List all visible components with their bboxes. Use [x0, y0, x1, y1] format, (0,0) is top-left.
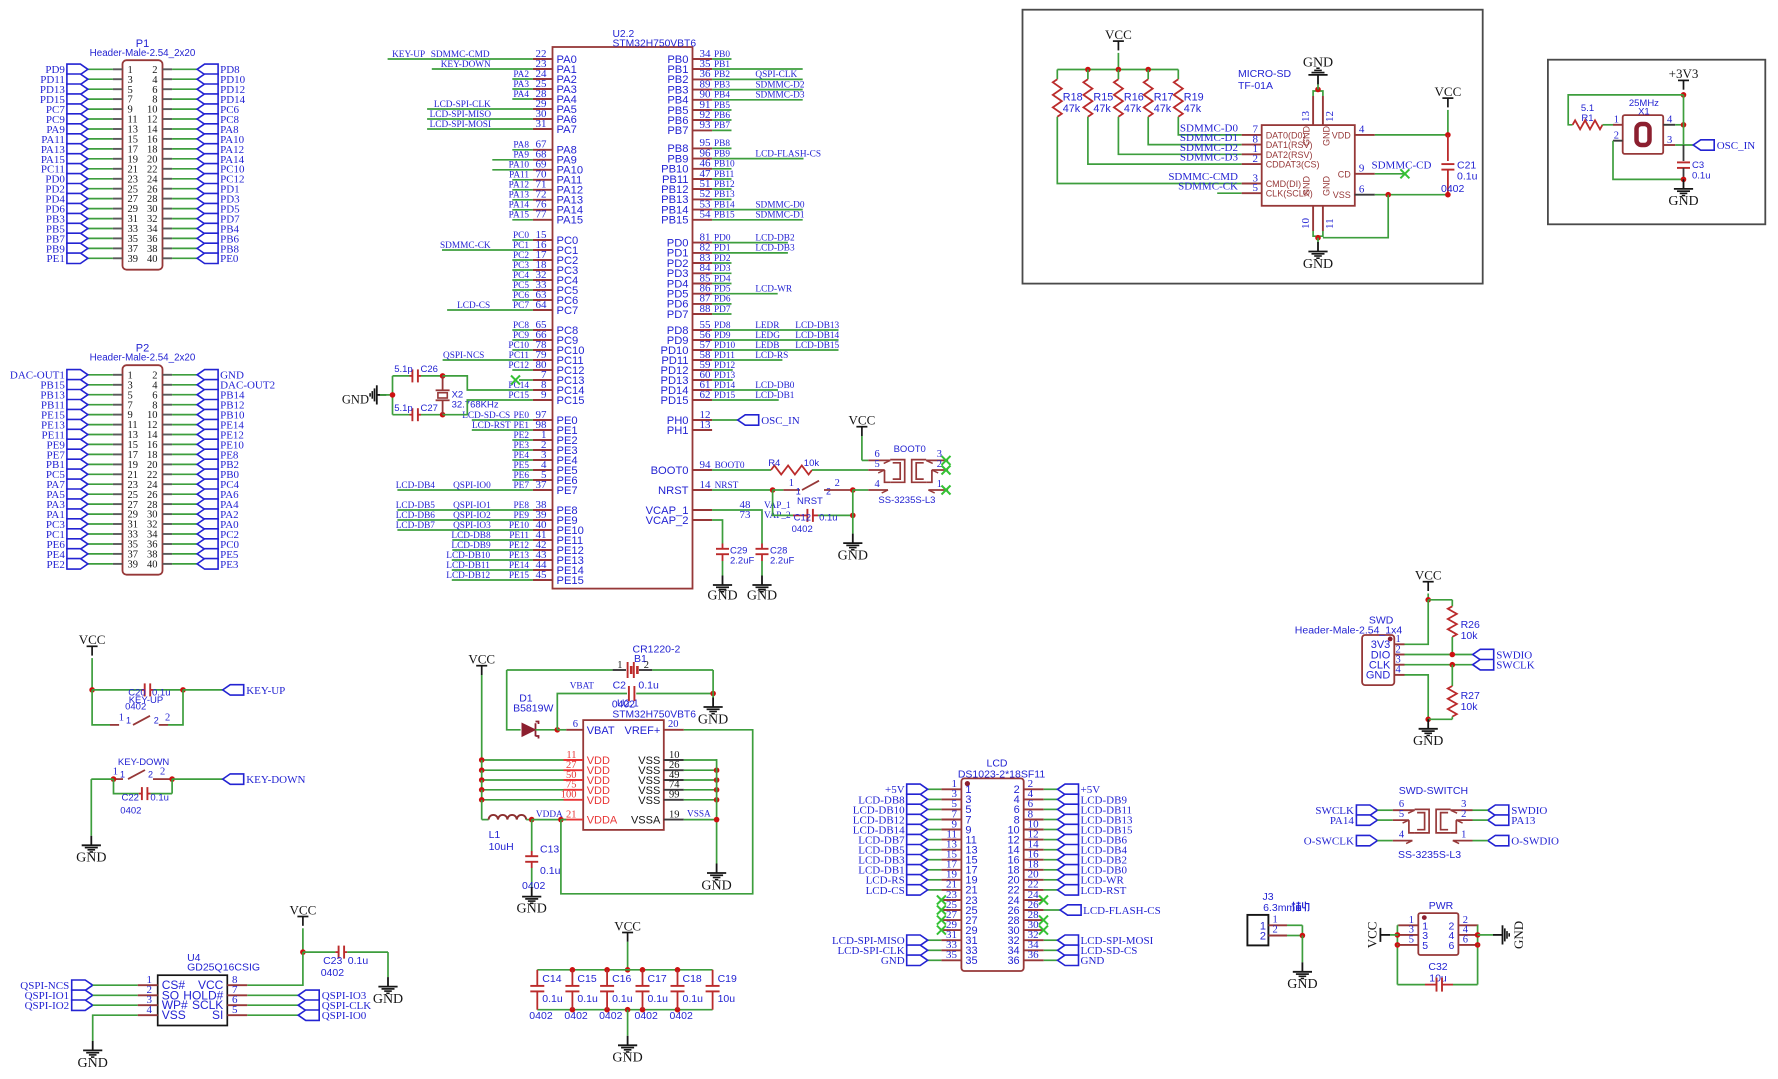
- U2.2 pin 86 PD5: [667, 283, 793, 301]
- U2.2 pin 14 NRST: [658, 479, 739, 497]
- LCD pin 3 LCD-DB8: [858, 788, 971, 806]
- U2.2 pin 93 PB7: [667, 119, 731, 137]
- svg-text:PE3: PE3: [220, 559, 239, 571]
- X1 pin 1: [1613, 115, 1623, 126]
- wire VCC to switch pin6: [862, 459, 868, 461]
- svg-text:PE7: PE7: [557, 485, 578, 497]
- svg-text:13: 13: [700, 419, 712, 431]
- U2.2 pin 39 PE9: [396, 509, 578, 527]
- SWD pin 4 GND: [1366, 665, 1405, 682]
- resistor R16 47k: [1114, 70, 1144, 117]
- P1 pin row 27/28 PD4/PD3: [45, 193, 240, 205]
- svg-text:VCC: VCC: [849, 413, 876, 428]
- switch BOOT0 SS-3235S-L3: [868, 444, 950, 506]
- LCD pin 28 NC: [1007, 909, 1048, 927]
- svg-text:PD9: PD9: [714, 331, 731, 341]
- svg-text:Header-Male-2.54_1x4: Header-Male-2.54_1x4: [1295, 625, 1403, 637]
- U2.1 VSS pin 10: [638, 750, 716, 767]
- svg-text:LCD-FLASH-CS: LCD-FLASH-CS: [755, 149, 821, 159]
- svg-text:1: 1: [937, 479, 942, 490]
- capacitor C22 0.1u key-down: [114, 779, 173, 817]
- wire VCAP_1 to C28: [712, 510, 762, 544]
- svg-text:6: 6: [1463, 935, 1468, 946]
- U2.2 pin 28 PA4: [512, 88, 577, 106]
- U2.1 VSS pin 26: [638, 760, 719, 777]
- svg-text:LCD-DB5: LCD-DB5: [396, 501, 436, 511]
- P2 pin row 25/26 PA5/PA6: [46, 489, 239, 501]
- P1 pin row 9/10 PC7/PC6: [46, 104, 240, 116]
- U2.1 VSS pin 74: [638, 780, 719, 797]
- svg-text:6.3mm: 6.3mm: [1263, 902, 1295, 914]
- svg-text:PC7: PC7: [557, 305, 579, 317]
- TF pin 8 DAT1(RSV): [1180, 132, 1313, 150]
- svg-text:10k: 10k: [1461, 630, 1479, 642]
- LCD pin 24 NC: [1007, 889, 1048, 907]
- svg-text:0.1u: 0.1u: [540, 865, 561, 877]
- svg-text:PC12: PC12: [508, 361, 529, 371]
- svg-text:88: 88: [700, 303, 712, 315]
- wire CLK: [1217, 192, 1242, 194]
- battery B1 CR1220-2: [507, 644, 713, 730]
- P1 pin row 37/38 PB9/PB8: [46, 243, 240, 255]
- svg-text:NRST: NRST: [797, 496, 823, 507]
- ground below C28: [747, 576, 777, 604]
- svg-text:PE4: PE4: [514, 451, 530, 461]
- svg-text:PE15: PE15: [557, 575, 584, 587]
- LCD pin 33 LCD-SPI-CLK: [837, 939, 977, 957]
- U2.2 pin 97 PE0: [462, 409, 577, 427]
- svg-text:LCD-CS: LCD-CS: [866, 885, 905, 897]
- svg-text:PA12: PA12: [509, 181, 530, 191]
- svg-text:C13: C13: [540, 844, 559, 856]
- capacitor C15 0.1u: [564, 970, 598, 1022]
- svg-text:PD15: PD15: [661, 395, 689, 407]
- LCD pin 19 LCD-RS: [866, 869, 978, 887]
- svg-text:LCD-RST: LCD-RST: [472, 421, 511, 431]
- TF pin 1 DAT2(RSV): [1180, 142, 1313, 160]
- svg-text:GND: GND: [76, 851, 106, 866]
- U2.2 pin 17 PC2: [512, 249, 578, 267]
- svg-text:LCD-DB6: LCD-DB6: [396, 511, 436, 521]
- U2.2 pin 9 PC15: [508, 389, 584, 407]
- PWR pins 5/6: [1398, 935, 1478, 952]
- svg-text:0.1u: 0.1u: [638, 680, 659, 692]
- P1 pin row 13/14 PA9/PA8: [46, 124, 239, 136]
- svg-text:6: 6: [573, 719, 578, 730]
- svg-text:LCD-DB14: LCD-DB14: [795, 331, 839, 341]
- svg-text:VCC: VCC: [614, 918, 641, 933]
- net flag QSPI-IO1: [25, 990, 138, 1002]
- net flag SWCLK sw: [1315, 805, 1392, 817]
- svg-text:KEY-DOWN: KEY-DOWN: [246, 774, 305, 786]
- svg-text:PE7: PE7: [514, 481, 530, 491]
- svg-text:40: 40: [147, 560, 158, 571]
- U2.2 pin 56 PD9: [667, 329, 840, 347]
- U2.2 pin 46 PB10: [661, 158, 735, 176]
- net flag KEY-UP: [183, 685, 285, 697]
- svg-text:10k: 10k: [1461, 701, 1479, 713]
- svg-text:GND: GND: [707, 589, 737, 604]
- svg-text:QSPI-IO3: QSPI-IO3: [453, 521, 491, 531]
- P2 pin row 39/40 PE2/PE3: [47, 559, 239, 571]
- U2.2 pin 41 PE11: [451, 529, 583, 547]
- P2 pin row 3/4 PB15/DAC-OUT2: [40, 380, 275, 392]
- svg-text:PD13: PD13: [714, 371, 736, 381]
- LCD pin 4 LCD-DB9: [1014, 788, 1128, 806]
- LCD pin 12 LCD-DB6: [1007, 828, 1127, 846]
- P1 pin row 21/22 PC11/PC10: [41, 164, 245, 176]
- svg-text:PD15: PD15: [714, 391, 736, 401]
- svg-text:2: 2: [826, 486, 831, 496]
- wire resistor top rail: [1057, 67, 1178, 73]
- U2.2 pin 12 PH0: [667, 409, 712, 427]
- svg-text:GND: GND: [1302, 176, 1312, 197]
- svg-text:LCD-CS: LCD-CS: [457, 301, 490, 311]
- svg-text:PA11: PA11: [509, 171, 529, 181]
- svg-text:LCD-DB8: LCD-DB8: [451, 531, 491, 541]
- P1 pin row 23/24 PD0/PC12: [45, 174, 244, 186]
- svg-text:PE2: PE2: [47, 559, 65, 571]
- U2.2 pin 32 PC4: [512, 269, 578, 287]
- svg-text:100: 100: [561, 790, 577, 801]
- P1 pin row 11/12 PC9/PC8: [46, 114, 240, 126]
- svg-text:PD7: PD7: [667, 309, 689, 321]
- U2.2 pin 1 PE2: [512, 429, 577, 447]
- LCD pin 18 LCD-DB0: [1007, 859, 1127, 877]
- oscillator section frame: [1548, 60, 1765, 225]
- svg-text:VBAT: VBAT: [587, 725, 615, 737]
- capacitor C32 10u: [1397, 961, 1477, 992]
- svg-text:PC9: PC9: [513, 331, 529, 341]
- svg-text:PA2: PA2: [513, 70, 529, 80]
- svg-text:O-SWCLK: O-SWCLK: [1304, 836, 1354, 848]
- svg-text:PB4: PB4: [714, 91, 730, 101]
- svg-text:5.1p: 5.1p: [394, 403, 413, 414]
- svg-text:0402: 0402: [599, 1010, 623, 1022]
- svg-text:47k: 47k: [1063, 103, 1081, 115]
- svg-text:C22: C22: [122, 792, 139, 803]
- PWR pins 1/2: [1398, 915, 1478, 932]
- U2.2 pin 95 PB8: [667, 137, 731, 155]
- svg-text:1: 1: [120, 770, 125, 780]
- U2.2 pin 31 PA7: [427, 118, 577, 136]
- svg-text:PB15: PB15: [714, 211, 735, 221]
- wire X2 left vertical: [390, 376, 396, 415]
- svg-text:0402: 0402: [125, 702, 146, 713]
- svg-text:2: 2: [165, 712, 170, 723]
- svg-text:QSPI-IO1: QSPI-IO1: [453, 501, 491, 511]
- power VCC U2.1: [468, 652, 495, 760]
- P1 pin row 31/32 PB3/PD7: [46, 213, 240, 225]
- U2.1 VDDA pin 21: [482, 800, 618, 827]
- wire VCAP_2 to C29: [712, 520, 722, 544]
- svg-text:2: 2: [154, 716, 159, 726]
- svg-text:PE6: PE6: [514, 471, 530, 481]
- svg-text:PB3: PB3: [714, 80, 730, 90]
- P1 pin row 19/20 PA15/PA14: [41, 154, 245, 166]
- svg-text:PE9: PE9: [514, 511, 530, 521]
- LCD pin 30 NC: [1007, 919, 1048, 937]
- ground below C12: [838, 490, 868, 563]
- P1 pin row 33/34 PB5/PB4: [46, 223, 240, 235]
- svg-text:C2: C2: [613, 680, 627, 692]
- svg-text:PE13: PE13: [509, 551, 529, 561]
- U2.2 pin 88 PD7: [667, 303, 732, 321]
- svg-text:0.1u: 0.1u: [542, 993, 563, 1005]
- U2.2 pin 80 PC12: [508, 359, 584, 377]
- svg-text:C26: C26: [421, 364, 438, 375]
- U2.2 pin 7 PC13: [533, 369, 585, 387]
- svg-text:SWCLK: SWCLK: [1496, 660, 1535, 672]
- U2.1 VDD pin 27: [479, 760, 610, 780]
- resistor R17 47k: [1144, 70, 1174, 117]
- TF top GND pins: [1300, 55, 1336, 146]
- U2.2 pin 87 PD6: [667, 293, 732, 311]
- svg-text:19: 19: [669, 809, 680, 820]
- net flag SWCLK: [1473, 660, 1535, 672]
- svg-text:2: 2: [1614, 131, 1619, 142]
- U2.2 pin 18 PC3: [512, 259, 578, 277]
- U2.2 pin 85 PD4: [667, 272, 732, 290]
- svg-text:PE14: PE14: [509, 561, 529, 571]
- SWD pin 3 CLK: [1369, 655, 1405, 672]
- svg-text:QSPI-IO2: QSPI-IO2: [25, 1000, 70, 1012]
- svg-text:PE1: PE1: [47, 253, 65, 265]
- svg-text:C19: C19: [718, 973, 737, 985]
- U2.2 pin 53 PB14: [661, 198, 805, 216]
- svg-text:PE11: PE11: [509, 531, 529, 541]
- svg-text:20: 20: [668, 719, 679, 730]
- P2 pin row 19/20 PB1/PB2: [46, 459, 239, 471]
- svg-text:77: 77: [536, 209, 548, 221]
- svg-text:PD7: PD7: [714, 305, 731, 315]
- net flag QSPI-IO0: [247, 1010, 367, 1022]
- P2 pin row 5/6 PB13/PB14: [40, 390, 245, 402]
- wire R15 to DAT3: [1088, 117, 1242, 164]
- svg-text:GND: GND: [1322, 176, 1332, 197]
- svg-text:PA7: PA7: [557, 124, 577, 136]
- svg-text:LCD-DB10: LCD-DB10: [446, 551, 490, 561]
- U4 pin 4 VSS: [138, 1004, 186, 1022]
- U2.2 pin 63 PC6: [512, 289, 578, 307]
- svg-text:99: 99: [669, 790, 680, 801]
- lcd connector DS1023 body: [958, 758, 1046, 972]
- svg-text:PA15: PA15: [509, 211, 530, 221]
- svg-text:SDMMC-CD: SDMMC-CD: [1372, 159, 1432, 171]
- U2.2 pin 71 PA12: [509, 179, 583, 197]
- LCD pin 13 LCD-DB5: [858, 839, 977, 857]
- capacitor C29 2.2uF: [716, 544, 754, 576]
- svg-text:PC0: PC0: [513, 231, 529, 241]
- svg-text:STM32H750VBT6: STM32H750VBT6: [612, 710, 696, 721]
- svg-text:PE10: PE10: [509, 521, 529, 531]
- SWD pin 1 3V3: [1371, 634, 1405, 651]
- svg-text:64: 64: [536, 299, 548, 311]
- J3 chinese label: [1292, 902, 1309, 912]
- U2.2 pin 54 PB15: [661, 209, 805, 227]
- svg-text:PB9: PB9: [714, 149, 730, 159]
- svg-text:LCD-DB4: LCD-DB4: [396, 481, 436, 491]
- svg-text:62: 62: [700, 389, 711, 401]
- TF pin 9 CD: [1338, 159, 1432, 179]
- svg-text:5.1p: 5.1p: [394, 364, 413, 375]
- U2.2 pin 35 PB1: [667, 58, 802, 76]
- svg-text:10uH: 10uH: [489, 841, 514, 853]
- capacitor C26 5.1p: [393, 364, 443, 382]
- wire vcc rail to R26: [1428, 599, 1452, 601]
- U2.2 pin 76 PA14: [509, 199, 583, 217]
- svg-text:SDMMC-CK: SDMMC-CK: [1178, 181, 1238, 193]
- LCD pin 15 LCD-DB3: [858, 849, 977, 867]
- inductor L1 10uH: [482, 815, 567, 853]
- svg-text:PC4: PC4: [513, 271, 529, 281]
- tf-card TF-01A body: [1238, 68, 1355, 206]
- svg-text:PC15: PC15: [557, 395, 585, 407]
- svg-text:PE8: PE8: [514, 501, 530, 511]
- capacitor C13 0.1u: [522, 820, 561, 892]
- U2.1 VDD pin 50: [479, 770, 610, 790]
- LCD pin 29 NC: [937, 919, 978, 937]
- svg-text:SDMMC-CK: SDMMC-CK: [440, 241, 491, 251]
- power +3V3: [1669, 66, 1699, 98]
- svg-text:4: 4: [874, 479, 880, 490]
- svg-text:KEY-UP: KEY-UP: [246, 685, 285, 697]
- U2.2 pin 58 PD11: [661, 349, 788, 367]
- U2.2 pin 52 PB13: [661, 188, 735, 206]
- X1 vcc drop: [1683, 95, 1685, 145]
- svg-text:VCC: VCC: [1415, 568, 1442, 583]
- svg-text:PC3: PC3: [513, 261, 529, 271]
- U2.2 pin 40 PE10: [396, 519, 584, 537]
- svg-text:PWR: PWR: [1429, 900, 1454, 912]
- resistor R27 10k: [1448, 665, 1480, 720]
- capacitor C14 0.1u: [529, 970, 563, 1022]
- U2.2 pin 77 PA15: [509, 209, 583, 227]
- capacitor C12 0.1u: [773, 490, 856, 535]
- svg-text:MICRO-SD: MICRO-SD: [1238, 68, 1291, 80]
- svg-text:VSS: VSS: [638, 795, 660, 807]
- svg-text:GD25Q16CSIG: GD25Q16CSIG: [187, 962, 260, 974]
- U2.2 pin 16 PC1: [440, 239, 578, 257]
- svg-text:PA14: PA14: [1330, 815, 1355, 827]
- power VCC swd: [1415, 568, 1442, 603]
- U2.2 pin 24 PA2: [512, 68, 577, 86]
- svg-text:DAT2(RSV): DAT2(RSV): [1266, 150, 1313, 160]
- U2.2 pin 57 PD10: [661, 339, 840, 357]
- svg-text:O-SWDIO: O-SWDIO: [1511, 836, 1559, 848]
- svg-text:SWD-SWITCH: SWD-SWITCH: [1399, 785, 1468, 797]
- P2 pin row 31/32 PC3/PA0: [46, 519, 239, 531]
- svg-text:PE0: PE0: [514, 411, 530, 421]
- svg-text:PB8: PB8: [714, 139, 730, 149]
- svg-text:1: 1: [789, 478, 794, 489]
- svg-text:GND: GND: [1081, 955, 1105, 967]
- svg-text:J3: J3: [1262, 891, 1273, 903]
- svg-text:PD0: PD0: [714, 233, 731, 243]
- svg-text:SDMMC-D1: SDMMC-D1: [755, 211, 804, 221]
- svg-text:PB13: PB13: [714, 190, 735, 200]
- svg-text:36: 36: [1028, 949, 1040, 961]
- svg-text:SS-3235S-L3: SS-3235S-L3: [1398, 849, 1461, 861]
- U2.2 pin 90 PB4: [667, 89, 804, 107]
- svg-text:SDMMC-CMD: SDMMC-CMD: [431, 50, 490, 60]
- svg-text:VCC: VCC: [1105, 27, 1132, 42]
- svg-text:PB10: PB10: [714, 160, 735, 170]
- svg-text:40: 40: [147, 254, 158, 265]
- svg-text:PB11: PB11: [714, 170, 735, 180]
- LCD pin 6 LCD-DB11: [1014, 798, 1132, 816]
- U2.2 pin 43 PE13: [446, 549, 584, 567]
- ground cap bank: [612, 1010, 642, 1066]
- svg-text:C32: C32: [1428, 961, 1447, 973]
- U2.2 pin 65 PC8: [512, 319, 578, 337]
- U2.2 pin 70 PA11: [509, 169, 582, 187]
- svg-text:LCD-RS: LCD-RS: [755, 351, 788, 361]
- P2 pin row 33/34 PC1/PC2: [46, 529, 239, 541]
- svg-text:PD8: PD8: [714, 321, 731, 331]
- svg-text:VDD: VDD: [587, 795, 610, 807]
- net flag QSPI-IO2: [25, 1000, 138, 1012]
- U2.2 pin 72 PA13: [509, 189, 583, 207]
- LCD pin 25 NC: [937, 899, 978, 917]
- U2.2 pin 45 PE15: [446, 569, 584, 587]
- svg-text:GND: GND: [838, 548, 868, 563]
- svg-text:PD3: PD3: [714, 264, 731, 274]
- P1 pin row 29/30 PD6/PD5: [45, 203, 240, 215]
- svg-text:1: 1: [796, 486, 801, 496]
- svg-text:93: 93: [700, 119, 712, 131]
- net flag SWDIO sw: [1473, 805, 1548, 817]
- P2 pin row 27/28 PA3/PA4: [46, 499, 239, 511]
- svg-text:C16: C16: [612, 973, 631, 985]
- svg-text:47k: 47k: [1124, 103, 1142, 115]
- svg-text:BOOT0: BOOT0: [651, 465, 689, 477]
- U2.1 VDD pin 100: [479, 790, 610, 807]
- P1 pin row 35/36 PB7/PB6: [46, 233, 240, 245]
- svg-text:31: 31: [536, 118, 547, 130]
- X1 pin 3: [1663, 135, 1693, 146]
- svg-text:VSS: VSS: [162, 1008, 186, 1022]
- TF pin 5 CLK(SCLK): [1178, 181, 1313, 199]
- svg-text:PB2: PB2: [714, 70, 730, 80]
- svg-text:10k: 10k: [804, 458, 820, 469]
- svg-text:SDMMC-D3: SDMMC-D3: [755, 91, 804, 101]
- svg-text:LCD-DB1: LCD-DB1: [755, 391, 795, 401]
- net flag OSC_IN at PH0: [712, 415, 800, 427]
- U2.2 pin 36 PB2: [667, 68, 802, 86]
- svg-text:0.1u: 0.1u: [819, 513, 838, 524]
- svg-text:PC5: PC5: [513, 281, 529, 291]
- diode D1 B5819W: [513, 693, 566, 739]
- svg-text:PE0: PE0: [220, 253, 239, 265]
- svg-text:6: 6: [1359, 184, 1365, 196]
- U2.2 pin 13 PH1: [667, 419, 712, 437]
- SWD pin 2 DIO: [1371, 644, 1405, 661]
- svg-text:KEY-DOWN: KEY-DOWN: [441, 60, 491, 70]
- svg-text:1: 1: [119, 712, 124, 723]
- LCD pin 8 LCD-DB13: [1014, 808, 1133, 826]
- svg-text:X1: X1: [1638, 106, 1650, 117]
- U2.2 pin 73 VCAP_2: [646, 509, 791, 527]
- svg-text:0402: 0402: [670, 1010, 694, 1022]
- svg-text:13: 13: [1300, 111, 1312, 123]
- U2.2 pin 2 PE3: [512, 439, 577, 457]
- svg-text:CD: CD: [1338, 169, 1351, 179]
- svg-text:47k: 47k: [1154, 103, 1172, 115]
- svg-text:DAT0(D0): DAT0(D0): [1266, 130, 1306, 140]
- svg-text:2: 2: [644, 660, 649, 671]
- LCD pin 2 +5V: [1014, 778, 1101, 796]
